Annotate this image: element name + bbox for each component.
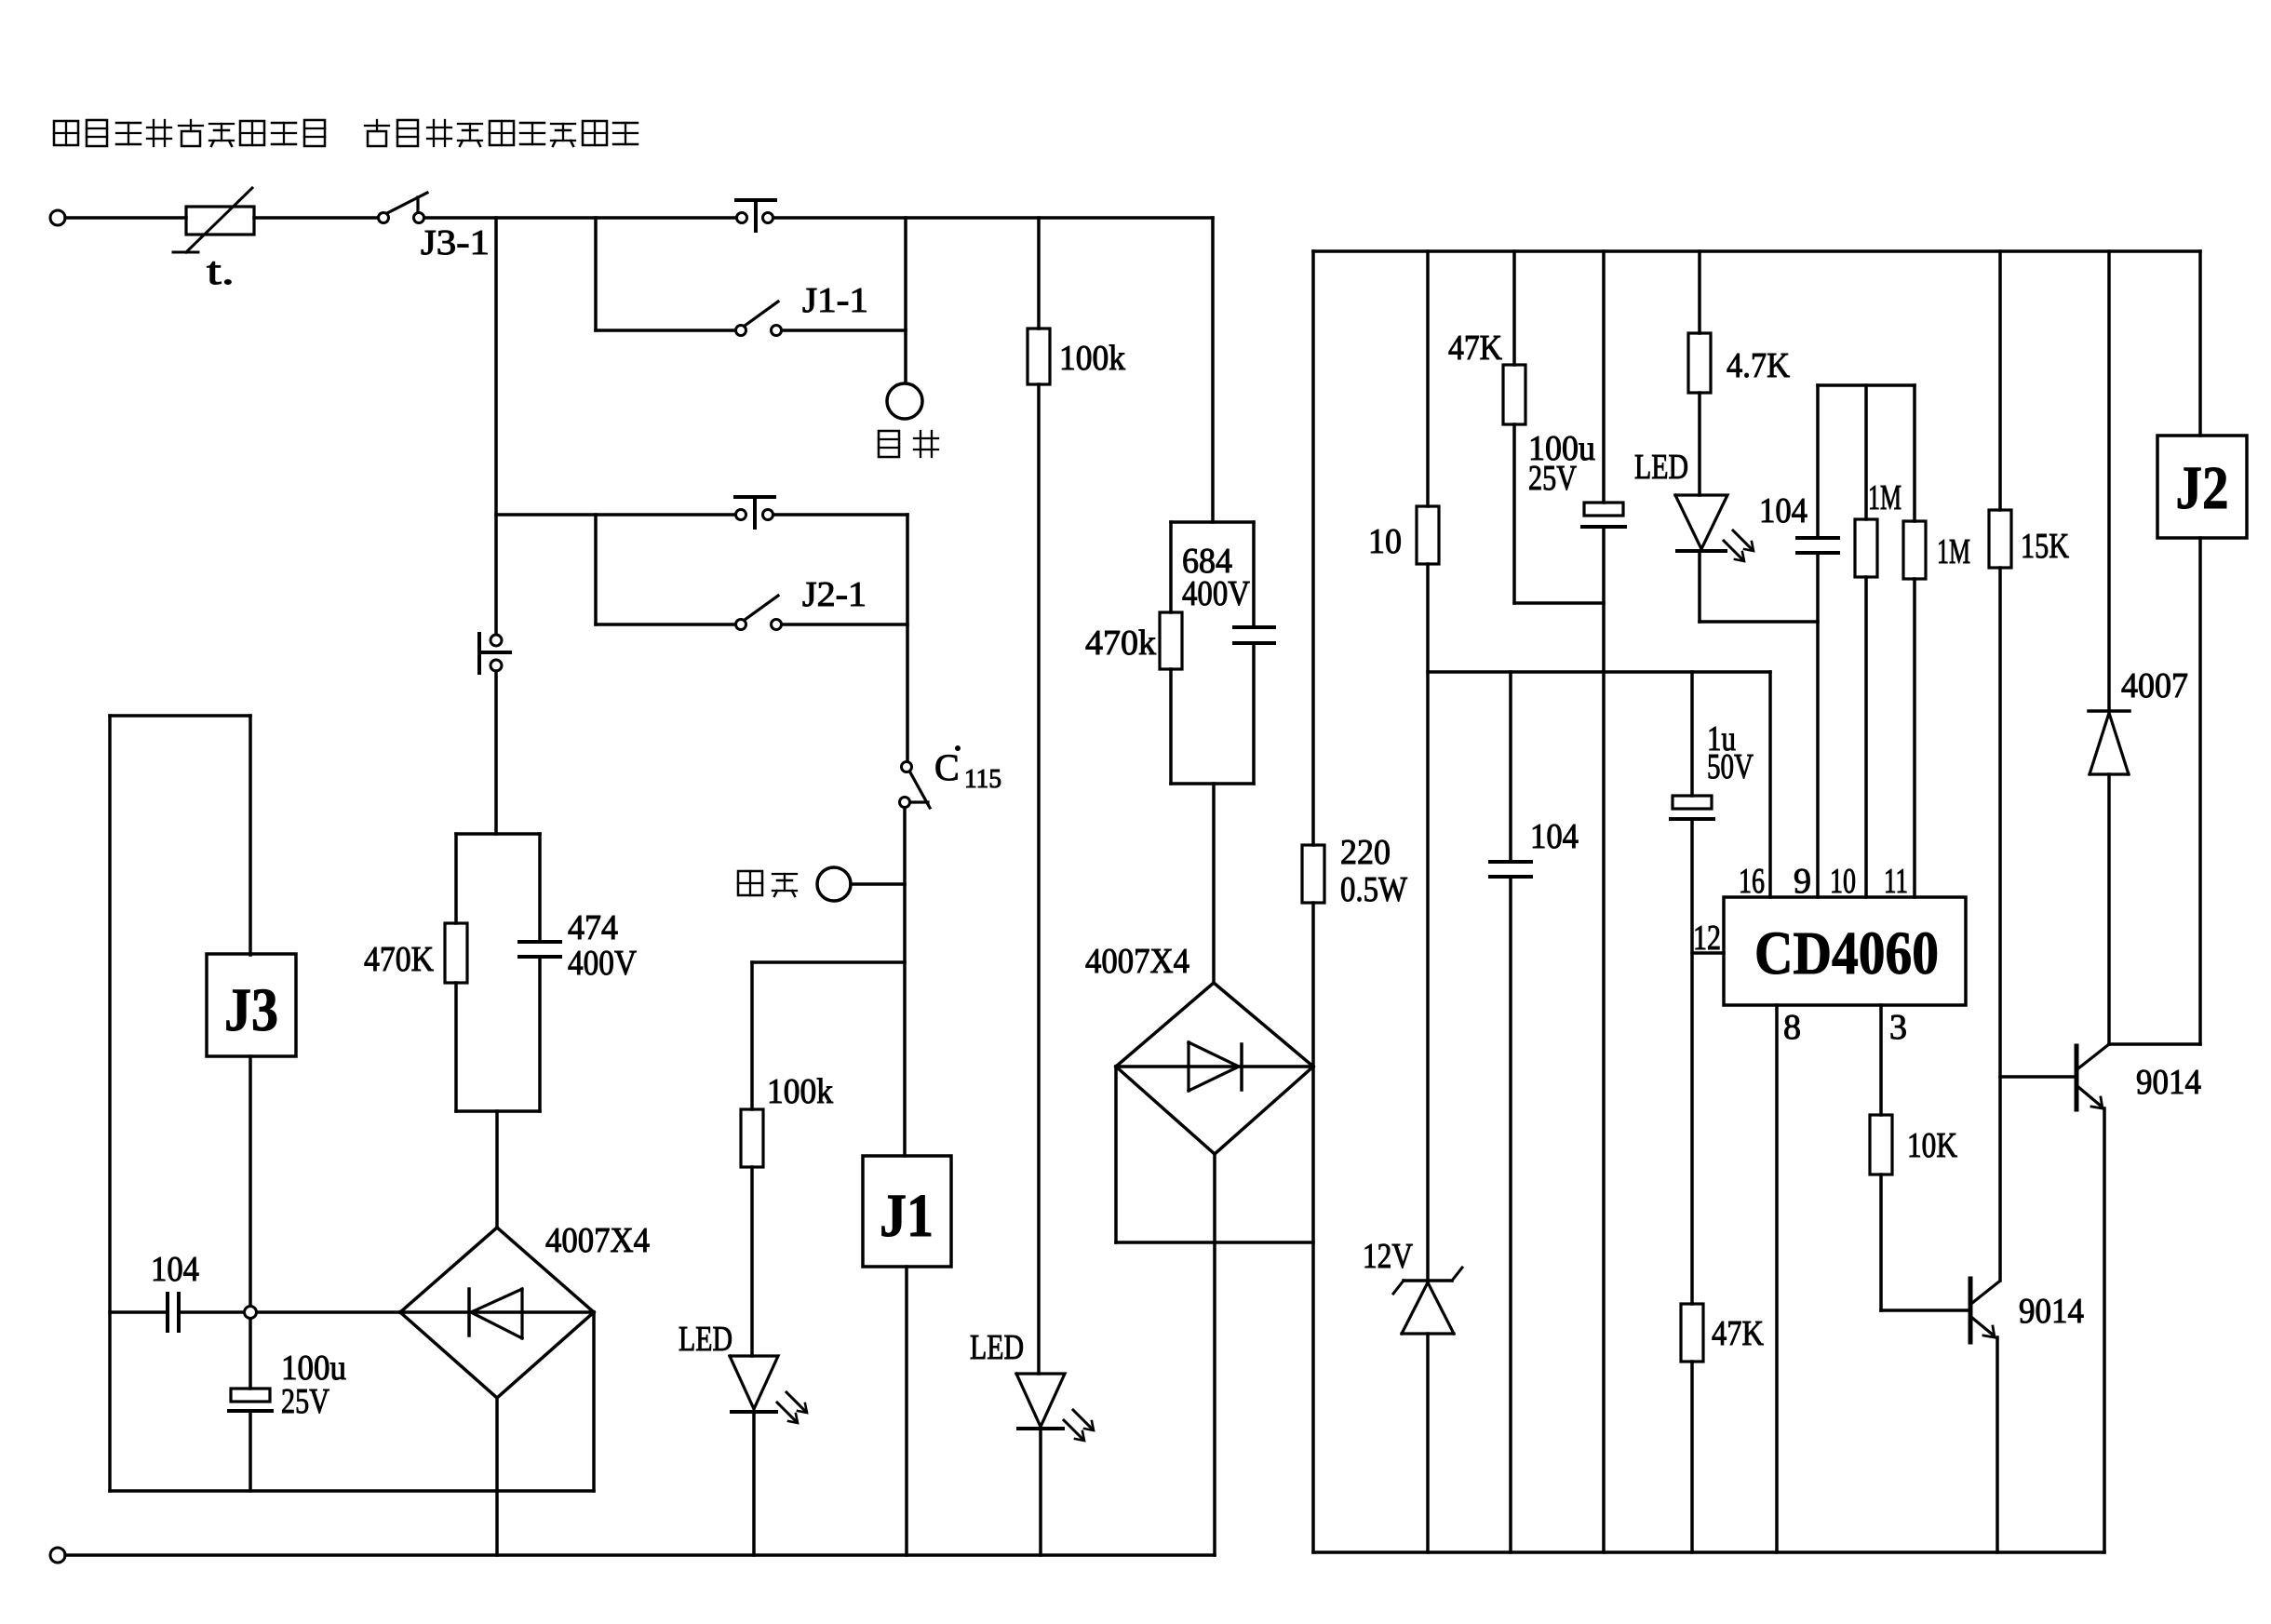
- svg-text:104: 104: [151, 1250, 199, 1289]
- label J2-1: [802, 575, 867, 614]
- label 104 (left): [151, 1250, 199, 1289]
- wire top bus right block y=270: [1313, 249, 2200, 253]
- wire left box bottom: [110, 1489, 594, 1493]
- wire x=1627 from top bus: [1512, 251, 1516, 365]
- push button PB3 (vertical): [479, 634, 510, 673]
- wire branch x=640 lower: [594, 515, 598, 624]
- resistor 15K: [1989, 510, 2011, 568]
- wire left rail x=118: [108, 716, 112, 1491]
- wire x=2149 from top bus: [1998, 251, 2002, 510]
- svg-text:25V: 25V: [1528, 459, 1577, 498]
- capacitor 100u 25V electrolytic (right): [1582, 503, 1625, 527]
- svg-text:104: 104: [1759, 491, 1807, 530]
- wire: [750, 1167, 754, 1356]
- switch J3-1 (relay contact, closed): [379, 193, 428, 223]
- wire pin11 line lower: [1913, 579, 1916, 897]
- wire J1-1 row left: [596, 329, 735, 332]
- wire LED2 to bottom rail: [1039, 1429, 1042, 1555]
- label 4007X4 (2): [1085, 942, 1189, 981]
- wire bracket over pins 9-10-11: [1818, 383, 1915, 387]
- wire long vertical x=1116: [1037, 384, 1041, 1374]
- wire main bottom rail: [65, 1553, 1215, 1557]
- label 15K: [2021, 527, 2069, 566]
- label 4007X4 (1): [545, 1221, 650, 1260]
- wire cap to node: [179, 1310, 244, 1314]
- svg-text:4.7K: 4.7K: [1727, 346, 1790, 385]
- wire J1 to bottom rail: [905, 1267, 908, 1555]
- pin label 16: [1739, 862, 1765, 901]
- wire 474 box to bridge1: [495, 1111, 499, 1228]
- capacitor 100u 25V electrolytic (left): [229, 1389, 272, 1411]
- LED1 (heater indicator): [730, 1356, 807, 1423]
- label 470k: [1085, 624, 1156, 663]
- wire pin10 line upper: [1864, 385, 1868, 519]
- pin label 9: [1794, 862, 1811, 901]
- wire LED3 down and jog right: [1700, 551, 1818, 622]
- terminal L (AC input top): [50, 210, 65, 225]
- svg-text:1M: 1M: [1868, 478, 1901, 517]
- label 10K: [1907, 1126, 1957, 1165]
- wire node down: [249, 1319, 252, 1389]
- terminal N (AC input bottom): [50, 1548, 65, 1563]
- label 104 (oscillator): [1759, 491, 1807, 530]
- label 9014 (top): [2136, 1063, 2201, 1102]
- relay coil J2: [2157, 436, 2247, 538]
- svg-text:104: 104: [1530, 817, 1579, 856]
- wire vertical to J1 relay: [903, 808, 907, 1156]
- wire branch y=1034: [752, 962, 905, 1109]
- switch C115 (thermostat): [900, 762, 931, 809]
- svg-text:J2-1: J2-1: [802, 575, 867, 614]
- wire from top bus x=1116: [1037, 218, 1041, 329]
- capacitor 104 (middle): [1490, 862, 1531, 877]
- wire x=2149 down to Q2 collector: [1998, 568, 2002, 1281]
- wire pin11 line upper: [1913, 385, 1916, 521]
- wire x=1411 lower segment to right rail: [1311, 903, 1315, 1552]
- switch J1-1 (relay contact, open): [736, 302, 782, 336]
- label J3-1: [421, 223, 490, 262]
- label 25V (left): [281, 1382, 329, 1421]
- wire bridge2 bottom vertex to main rail: [1213, 1154, 1216, 1555]
- label 100k: [767, 1072, 833, 1111]
- wire J3 to node: [249, 1056, 252, 1306]
- svg-text:400V: 400V: [568, 944, 637, 983]
- label 220: [1340, 833, 1391, 872]
- label 104 (middle): [1530, 817, 1579, 856]
- svg-text:4007X4: 4007X4: [545, 1221, 650, 1260]
- svg-text:C: C: [934, 746, 960, 788]
- wire x=1623 down from node row: [1509, 672, 1512, 862]
- label 100u (left): [281, 1349, 346, 1388]
- svg-text:3: 3: [1889, 1008, 1907, 1047]
- wire pin16 line: [1768, 672, 1772, 897]
- svg-text:16: 16: [1739, 862, 1765, 901]
- resistor 1M (2): [1903, 521, 1926, 579]
- wire pin3 down: [1879, 1005, 1883, 1115]
- svg-text:470K: 470K: [364, 940, 434, 979]
- resistor 4.7K: [1688, 333, 1711, 393]
- label LED (1): [679, 1320, 732, 1359]
- wire J1-1 row right: [782, 329, 906, 332]
- LED3 (timer indicator): [1675, 495, 1754, 561]
- relay coil J3: [207, 954, 296, 1056]
- svg-text:220: 220: [1340, 833, 1391, 872]
- title text (Chinese): 最好用的消毒柜电路 不用多说一看就知道: [54, 120, 638, 146]
- label 47K (bottom): [1712, 1314, 1764, 1353]
- svg-text:4007X4: 4007X4: [1085, 942, 1189, 981]
- pin label 8: [1783, 1008, 1801, 1047]
- wire pin8 to rail: [1775, 1005, 1779, 1552]
- svg-text:LED: LED: [970, 1328, 1024, 1367]
- wire vertical from top bus at x=533: [494, 218, 498, 635]
- svg-text:400V: 400V: [1182, 574, 1250, 613]
- capacitor 474 400V with resistor 470K (parallel box): [445, 834, 560, 1111]
- wire pin10 line lower: [1864, 577, 1868, 897]
- switch J2-1 (relay contact, open): [736, 596, 782, 630]
- relay coil J1: [863, 1156, 951, 1267]
- wire x=1411 top segment: [1311, 251, 1315, 845]
- wire x=1818 middle: [1690, 819, 1694, 1304]
- label 1M (2): [1937, 532, 1970, 571]
- label J1-1: [802, 281, 868, 320]
- wire 47K down and jog right: [1514, 424, 1604, 603]
- wire diode to collector node: [2107, 774, 2111, 1044]
- ozone lamp (臭氧 indicator): [887, 383, 922, 419]
- label LED (3): [1634, 448, 1688, 487]
- wire 47K bottom to rail: [1690, 1362, 1694, 1552]
- node (junction with open dot): [245, 1307, 257, 1319]
- svg-text:474: 474: [568, 908, 618, 947]
- label 9014 (bottom): [2019, 1292, 2084, 1331]
- wire 4.7K to LED3: [1698, 393, 1701, 495]
- wire J2-1 row right: [782, 623, 907, 626]
- wire second row y=553: [496, 513, 735, 517]
- wire 10K to Q2 base: [1881, 1174, 1969, 1310]
- resistor 10K: [1870, 1115, 1892, 1174]
- label 10: [1368, 522, 1402, 561]
- capacitor 684 400V with resistor 470k (parallel box): [1160, 522, 1274, 784]
- wire x=1818 down from node row: [1690, 672, 1694, 796]
- wire second row right: [773, 513, 907, 517]
- svg-text:100k: 100k: [1059, 339, 1125, 378]
- wire right block bottom rail: [1313, 1550, 2104, 1554]
- LED2 (ozone indicator): [1016, 1374, 1094, 1441]
- svg-text:25V: 25V: [281, 1382, 329, 1421]
- heater lamp (加热 indicator): [817, 867, 905, 901]
- wire top bus right: [773, 216, 1213, 220]
- label 4007: [2121, 666, 2188, 705]
- resistor 10: [1417, 506, 1439, 564]
- wire top bus corner down x=1303: [1211, 218, 1215, 522]
- svg-text:J3: J3: [224, 976, 278, 1044]
- label C 115: [934, 745, 1001, 794]
- label 4.7K: [1727, 346, 1790, 385]
- push button PB1 (ozone): [736, 200, 775, 231]
- capacitor 1u 50V electrolytic: [1671, 796, 1713, 819]
- svg-text:100k: 100k: [767, 1072, 833, 1111]
- resistor 220 0.5W: [1302, 845, 1324, 903]
- wire pin9 line lower: [1816, 553, 1820, 897]
- wire J2 down to collector node: [2109, 538, 2200, 1044]
- svg-text:11: 11: [1884, 862, 1908, 901]
- capacitor 104 (oscillator): [1797, 538, 1838, 553]
- wire vertical x=975 to C115 switch: [906, 515, 909, 761]
- label 47K (top): [1448, 329, 1502, 368]
- pin label 11: [1884, 862, 1908, 901]
- wire: [254, 216, 378, 220]
- svg-text:10K: 10K: [1907, 1126, 1957, 1165]
- label 1u: [1707, 719, 1736, 758]
- wire J2-1 row left: [596, 623, 735, 626]
- wire Q1 emitter to rail corner: [2103, 1108, 2106, 1552]
- wire supply node row y=722: [1428, 670, 1770, 674]
- svg-text:9: 9: [1794, 862, 1811, 901]
- pin label 3: [1889, 1008, 1907, 1047]
- wire node row y=1410 left: [110, 1310, 168, 1314]
- wire x=1826 from top bus: [1698, 251, 1701, 333]
- bridge rectifier 4007X4 (1): [400, 1228, 594, 1398]
- resistor 1M (1): [1855, 519, 1877, 577]
- wire zener to rail: [1426, 1334, 1430, 1552]
- svg-text:9014: 9014: [2136, 1063, 2201, 1102]
- label 1M (1): [1868, 478, 1901, 517]
- wire x=1623 to rail: [1509, 877, 1512, 1552]
- wire vertical to ozone lamp: [904, 218, 907, 384]
- svg-text:115: 115: [964, 765, 1001, 794]
- transistor Q2 9014 (bottom): [1970, 1279, 1999, 1342]
- svg-text:15K: 15K: [2021, 527, 2069, 566]
- label 470K (left): [364, 940, 434, 979]
- label t.: [207, 250, 235, 293]
- svg-text:t.: t.: [207, 250, 235, 293]
- label 474: [568, 908, 618, 947]
- svg-text:LED: LED: [679, 1320, 732, 1359]
- wire x=1723 from top bus: [1602, 251, 1606, 503]
- label 12V: [1363, 1237, 1413, 1276]
- bridge rectifier 4007X4 (2): [1116, 983, 1313, 1154]
- pin 12 stub: [1692, 951, 1724, 955]
- label 25V (right): [1528, 459, 1577, 498]
- wire x=1534 middle: [1426, 564, 1430, 1282]
- wire pin9 line upper: [1816, 385, 1820, 538]
- label 臭氧: [879, 431, 938, 457]
- wire x=1723 long vertical to rail: [1602, 527, 1606, 1552]
- svg-text:12V: 12V: [1363, 1237, 1413, 1276]
- svg-text:4007: 4007: [2121, 666, 2188, 705]
- svg-text:LED: LED: [1634, 448, 1688, 487]
- diode 4007: [2089, 711, 2130, 774]
- wire LED1 to bottom rail: [752, 1412, 756, 1555]
- wire jog to J3 top: [110, 716, 250, 955]
- svg-text:1M: 1M: [1937, 532, 1970, 571]
- svg-text:J1-1: J1-1: [802, 281, 868, 320]
- wire down to RC box: [494, 671, 498, 834]
- svg-text:8: 8: [1783, 1008, 1801, 1047]
- svg-text:J1: J1: [880, 1182, 934, 1250]
- resistor 47K (bottom): [1681, 1304, 1703, 1362]
- resistor 47K (top): [1503, 365, 1525, 424]
- svg-text:10: 10: [1830, 862, 1856, 901]
- IC CD4060: [1724, 897, 1966, 1005]
- svg-text:0.5W: 0.5W: [1340, 870, 1407, 909]
- svg-text:47K: 47K: [1712, 1314, 1764, 1353]
- label 加热: [738, 871, 797, 896]
- pin label 12: [1693, 919, 1721, 958]
- zener diode 12V: [1393, 1268, 1462, 1334]
- svg-text:47K: 47K: [1448, 329, 1502, 368]
- svg-text:J2: J2: [2176, 454, 2229, 522]
- wire: [65, 216, 186, 220]
- wire Q2 emitter to rail: [1996, 1337, 1999, 1552]
- thermal fuse t.: [173, 188, 254, 252]
- wire x=1534 from top bus: [1426, 251, 1430, 506]
- resistor 100k (LED1 series): [741, 1109, 763, 1167]
- label 400V (474): [568, 944, 637, 983]
- wire bridge1 bottom vertex to main rail: [495, 1398, 499, 1555]
- wire cap to box bottom: [249, 1411, 252, 1491]
- wire bridge1 right vertex down: [592, 1312, 596, 1491]
- svg-text:10: 10: [1368, 522, 1402, 561]
- pin label 10: [1830, 862, 1856, 901]
- wire top bus corner to J2: [2198, 251, 2202, 436]
- wire box to bridge2: [1212, 784, 1216, 983]
- label 400V (684): [1182, 574, 1250, 613]
- label 100k (2): [1059, 339, 1125, 378]
- transistor Q1 9014 (top): [2000, 1044, 2109, 1109]
- label 0.5W: [1340, 870, 1407, 909]
- capacitor 104 (left): [168, 1294, 179, 1331]
- svg-text:470k: 470k: [1085, 624, 1156, 663]
- resistor 100k (ozone indicator series): [1028, 329, 1050, 384]
- wire x=2266 from top bus: [2107, 251, 2111, 711]
- wire node to bridge1 left vertex: [257, 1310, 400, 1314]
- svg-text:J3-1: J3-1: [421, 223, 490, 262]
- label 684: [1182, 542, 1232, 581]
- label LED (2): [970, 1328, 1024, 1367]
- svg-text:9014: 9014: [2019, 1292, 2084, 1331]
- wire bridge2 left vertex jog: [1116, 1067, 1313, 1242]
- label 50V: [1707, 747, 1754, 786]
- svg-text:CD4060: CD4060: [1754, 919, 1939, 987]
- wire top bus: [424, 216, 736, 220]
- label 100u (right): [1528, 429, 1595, 468]
- svg-text:12: 12: [1693, 919, 1721, 958]
- push button PB2 (heater): [735, 497, 774, 528]
- svg-text:50V: 50V: [1707, 747, 1754, 786]
- wire branch x=640 upper: [594, 218, 598, 330]
